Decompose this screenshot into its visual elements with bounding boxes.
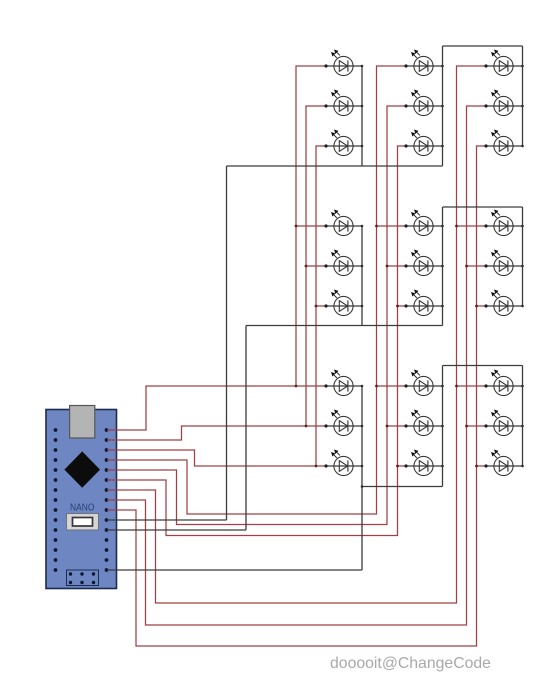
svg-text:NANO: NANO (70, 502, 95, 514)
svg-text:dooooit@ChangeCode: dooooit@ChangeCode (330, 655, 491, 672)
